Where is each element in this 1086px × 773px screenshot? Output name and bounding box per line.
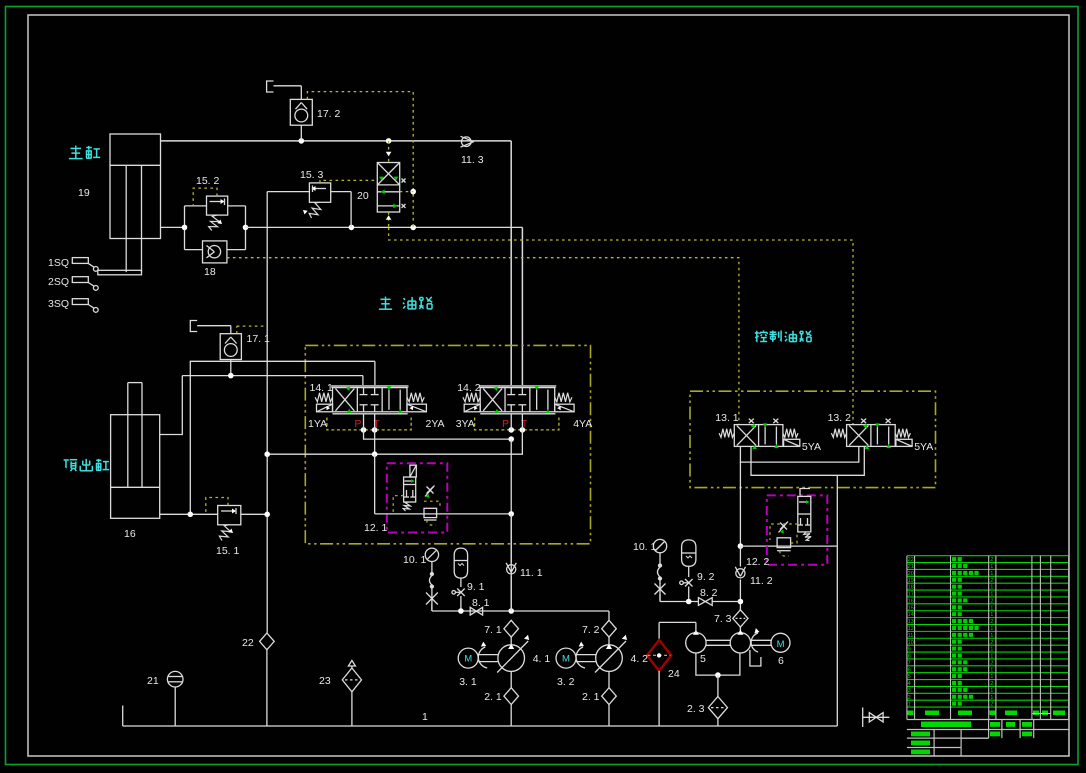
gauge 10.1 right [653, 539, 666, 552]
svg-text:2: 2 [990, 702, 993, 708]
wire cyl16 bottom [160, 513, 218, 515]
svg-text:M: M [562, 654, 570, 665]
svg-text:17. 1: 17. 1 [247, 333, 271, 345]
svg-text:12. 1: 12. 1 [364, 522, 388, 534]
wire tank line 1 [123, 725, 838, 727]
valve 8.2 [698, 598, 712, 606]
check valve 17.2 [274, 86, 313, 125]
wire 15.2 loop top [185, 205, 207, 207]
svg-text:14: 14 [908, 612, 914, 618]
table row texts [908, 557, 994, 708]
check valve 11.1 [506, 563, 516, 574]
svg-text:19: 19 [78, 187, 90, 199]
title block [907, 720, 1069, 756]
svg-text:2: 2 [908, 695, 911, 701]
wire P riser to valves [510, 141, 512, 388]
node 15.3 right [349, 225, 355, 231]
node 12.1/P [508, 511, 514, 517]
filter 7.3 [733, 610, 748, 627]
gauge 21 level [167, 671, 183, 726]
wire loop-T riser [521, 227, 523, 387]
svg-text:5: 5 [908, 674, 911, 680]
filter 2.3 [708, 675, 727, 726]
cylinder 16 eject body [111, 383, 160, 519]
svg-text:1: 1 [990, 654, 993, 660]
check valve 11.3 [461, 136, 474, 147]
motor 3. 1 [458, 642, 498, 669]
pilot line 17.2 dotted [307, 92, 413, 228]
wire T-return riser [266, 192, 268, 633]
svg-text:11. 2: 11. 2 [750, 575, 773, 587]
svg-text:2: 2 [990, 598, 993, 604]
svg-text:3SQ: 3SQ [48, 298, 69, 310]
breather 23 [342, 661, 361, 727]
node P drop [508, 436, 514, 442]
wire P cross-line [364, 430, 512, 439]
pilot drop into 20 [388, 141, 390, 163]
drain valve bottom right [863, 708, 890, 728]
svg-text:22: 22 [908, 557, 914, 563]
svg-text:2: 2 [990, 557, 993, 563]
svg-text:9: 9 [908, 647, 911, 653]
relief valve 15.3 [303, 183, 331, 218]
node P junction [508, 608, 514, 614]
solenoid frame 14. 2 dashed [475, 418, 559, 430]
region box main circuit [305, 345, 590, 543]
svg-text:10: 10 [908, 640, 914, 646]
svg-text:1: 1 [990, 695, 993, 701]
svg-text:1: 1 [990, 688, 993, 694]
needle valve 12.2 [779, 522, 789, 534]
svg-text:8. 2: 8. 2 [700, 587, 718, 599]
wire rod-side of 19 [161, 226, 185, 228]
check valve 18 [203, 241, 227, 263]
svg-text:P: P [502, 418, 509, 430]
wire 15.3 left [267, 191, 309, 193]
svg-text:4. 2: 4. 2 [631, 653, 649, 665]
wire junction to 7.2 [608, 611, 610, 620]
limit switch 3SQ [72, 299, 98, 313]
pilot line 2 to 13.1 [227, 258, 739, 425]
svg-text:11: 11 [908, 633, 914, 639]
wire 15.2 loop bottom [185, 249, 203, 251]
svg-text:11. 1: 11. 1 [520, 567, 543, 579]
wire A-line [190, 361, 375, 514]
check valve 17.1 [197, 326, 241, 360]
svg-text:1: 1 [908, 702, 911, 708]
label 主油路 [379, 297, 432, 310]
node 8.2 line [738, 599, 744, 605]
needle valve 12.1 [425, 486, 435, 499]
valve 14. 1 body [315, 386, 426, 414]
svg-text:13: 13 [908, 619, 914, 625]
svg-text:1: 1 [990, 647, 993, 653]
wire T drop to 12.1 [374, 454, 376, 514]
svg-text:17: 17 [908, 592, 914, 598]
wire 15.3 right drop [350, 192, 352, 228]
svg-text:1: 1 [990, 674, 993, 680]
pump 5 double [659, 622, 751, 653]
svg-text:18: 18 [204, 266, 216, 278]
node 9.2 [686, 599, 692, 605]
svg-text:1: 1 [990, 633, 993, 639]
wire main top line P [161, 140, 512, 142]
label 主缸 [69, 146, 100, 159]
svg-text:11. 3: 11. 3 [461, 154, 484, 166]
svg-text:1YA: 1YA [308, 418, 327, 430]
region box 12.2 magenta [767, 495, 828, 564]
wire 17.1 down [230, 360, 232, 376]
svg-text:8: 8 [908, 654, 911, 660]
svg-text:24: 24 [668, 668, 680, 680]
valve 13. 2 body [831, 419, 912, 450]
pilot out of 20 [388, 212, 390, 227]
wire pump5 under [696, 653, 740, 675]
filter 22 [260, 633, 275, 726]
node A/cyl16 [188, 512, 194, 518]
svg-text:15: 15 [908, 605, 914, 611]
svg-text:P: P [354, 418, 361, 430]
svg-text:2: 2 [990, 640, 993, 646]
wire 15.1 to T-return [241, 513, 267, 515]
drain bracket pump5 [750, 650, 761, 666]
motor 6 [751, 628, 790, 652]
node 14. 2 T [520, 427, 526, 433]
wire A drop to 14.1 [374, 361, 376, 387]
wire junction line [431, 605, 433, 612]
pilot 15.3 to 20 dotted [320, 180, 377, 183]
valve 8.1 [470, 607, 482, 615]
limit switch 1SQ [72, 258, 98, 272]
svg-text:16: 16 [124, 528, 136, 540]
filter 7. 1 [504, 620, 519, 637]
svg-text:18: 18 [908, 585, 914, 591]
pump 4. 2 [595, 635, 627, 673]
filter 2. 1 [602, 671, 617, 726]
svg-text:23: 23 [319, 675, 331, 687]
wire mid rail right [246, 226, 523, 228]
node main/17.2 [299, 138, 305, 144]
svg-text:2. 1: 2. 1 [484, 691, 502, 703]
svg-text:15. 2: 15. 2 [196, 175, 220, 187]
svg-text:8. 1: 8. 1 [472, 597, 490, 609]
node 14. 2 P [508, 427, 514, 433]
svg-text:1: 1 [422, 711, 428, 723]
filter 24 red [647, 622, 671, 726]
needle valve right [655, 583, 666, 602]
svg-text:7. 1: 7. 1 [484, 624, 502, 636]
node loop left [182, 225, 188, 231]
svg-text:13. 1: 13. 1 [715, 412, 739, 424]
svg-text:3YA: 3YA [456, 418, 475, 430]
relief valve 15.1 [218, 506, 241, 541]
svg-text:2: 2 [990, 660, 993, 666]
svg-text:10. 1: 10. 1 [403, 554, 427, 566]
table header row [907, 711, 1069, 720]
svg-text:14. 1: 14. 1 [310, 382, 334, 394]
pilot 20 right port [400, 191, 414, 193]
wire drain to tank [836, 475, 838, 726]
valve 14. 2 body [463, 386, 574, 414]
svg-text:3: 3 [908, 688, 911, 694]
node T-line 14.1 [372, 451, 378, 457]
wire 17.2 to main [300, 125, 302, 141]
wire B drop to 14.1 [362, 376, 364, 388]
tank symbol 17.1 drain [190, 321, 197, 332]
gauge 10.1 left [425, 548, 438, 561]
svg-text:6: 6 [778, 655, 784, 667]
svg-text:20: 20 [357, 190, 369, 202]
wire 13.1 P down [739, 462, 741, 546]
svg-text:M: M [777, 639, 785, 650]
reducing valve 12.1 [403, 465, 416, 511]
wire B-line [182, 375, 363, 377]
accumulator 9.2 [682, 540, 696, 566]
tank symbol 17.2 drain [267, 81, 274, 92]
wire P main riser low [510, 439, 512, 611]
pilot 17.1 dotted [236, 326, 238, 334]
svg-text:1: 1 [990, 571, 993, 577]
svg-text:2YA: 2YA [425, 418, 444, 430]
svg-text:5YA: 5YA [914, 441, 933, 453]
wire T line to tank [374, 430, 376, 454]
svg-text:17. 2: 17. 2 [317, 108, 341, 120]
svg-text:3. 2: 3. 2 [557, 676, 575, 688]
pump 4. 1 [497, 635, 529, 673]
valve 20 [377, 163, 405, 213]
pilot relief 12.1 [424, 508, 437, 520]
wire B to cyl16 [160, 376, 183, 435]
motor 3. 2 [556, 642, 596, 669]
svg-text:12: 12 [908, 626, 914, 632]
svg-text:1SQ: 1SQ [48, 257, 69, 269]
shutoff 9.1 [452, 578, 465, 611]
svg-text:22: 22 [242, 637, 254, 649]
svg-text:20: 20 [908, 571, 914, 577]
svg-text:2. 1: 2. 1 [582, 691, 600, 703]
svg-text:2SQ: 2SQ [48, 276, 69, 288]
wire 12.1 line [375, 513, 511, 515]
node 15.1/T [264, 512, 270, 518]
filter 7. 2 [602, 620, 617, 637]
node T-line left [264, 451, 270, 457]
svg-text:14. 2: 14. 2 [457, 382, 481, 394]
pilot line 1 to 13.2 [389, 227, 853, 424]
svg-text:3. 1: 3. 1 [459, 676, 477, 688]
relief valve 15.2 [207, 196, 228, 230]
svg-text:1: 1 [990, 564, 993, 570]
svg-text:5YA: 5YA [802, 441, 821, 453]
svg-text:2: 2 [990, 578, 993, 584]
wire P through 11.1 [510, 514, 512, 563]
node 14. 1 P [361, 427, 367, 433]
svg-text:10. 1: 10. 1 [633, 541, 657, 553]
svg-text:4. 1: 4. 1 [533, 653, 551, 665]
wire 15.2 loop right [245, 206, 247, 250]
svg-text:7. 3: 7. 3 [714, 613, 732, 625]
svg-text:1: 1 [990, 626, 993, 632]
wire 15.3 right [331, 191, 351, 193]
check valve 11.2 [735, 567, 745, 578]
pilot dotted 12.2 [770, 524, 798, 540]
svg-text:1: 1 [990, 612, 993, 618]
svg-text:13. 2: 13. 2 [828, 412, 852, 424]
svg-text:2. 3: 2. 3 [687, 703, 705, 715]
region box 12.1 magenta [387, 463, 448, 532]
reducing valve 12.2 [798, 489, 811, 541]
svg-text:15. 3: 15. 3 [300, 169, 324, 181]
pilot line 15.2 dotted [193, 188, 217, 206]
pilot relief 12.2 [777, 538, 791, 551]
svg-text:16: 16 [908, 598, 914, 604]
solenoid frame 14. 1 dashed [327, 418, 411, 430]
pilot dotted 12.1 [393, 496, 403, 514]
svg-text:9. 2: 9. 2 [697, 571, 715, 583]
limit switch 2SQ [72, 277, 98, 291]
filter 2. 1 [504, 671, 519, 726]
svg-text:M: M [464, 654, 472, 665]
svg-text:15. 1: 15. 1 [216, 545, 240, 557]
wire to 8.2 [659, 595, 661, 602]
svg-text:6: 6 [908, 667, 911, 673]
node pilot 20 right [410, 189, 416, 195]
wire control supply [739, 546, 741, 566]
svg-text:19: 19 [908, 578, 914, 584]
svg-text:4: 4 [908, 681, 911, 687]
svg-text:1: 1 [990, 585, 993, 591]
svg-text:21: 21 [908, 564, 914, 570]
svg-text:1: 1 [990, 667, 993, 673]
svg-text:4YA: 4YA [573, 418, 592, 430]
cylinder 19 main body [98, 134, 161, 275]
node 14. 1 T [372, 427, 378, 433]
label 控制油路 [755, 331, 812, 342]
wire 13 line A [740, 446, 858, 462]
svg-text:1: 1 [990, 592, 993, 598]
shutoff 9.2 [680, 566, 693, 601]
node pilot20 [410, 225, 416, 231]
svg-text:12. 2: 12. 2 [746, 556, 770, 568]
node 17.1/B [228, 373, 234, 379]
node main/20 [386, 138, 392, 144]
valve 13. 1 body [719, 419, 800, 450]
wire 13 line B [751, 446, 864, 475]
pilot 15.1 dotted [206, 498, 228, 515]
label 顶出缸 [64, 459, 110, 471]
wire 15.2 loop left [184, 206, 186, 250]
svg-text:9. 1: 9. 1 [467, 581, 485, 593]
wire gauge drop left [429, 562, 433, 593]
svg-text:21: 21 [147, 675, 159, 687]
svg-text:2: 2 [990, 619, 993, 625]
node 2.3 [715, 672, 721, 678]
accumulator 9.1 [454, 548, 467, 578]
node 9.1 [458, 608, 464, 614]
region box control circuit [690, 391, 936, 487]
node loop right [243, 225, 249, 231]
svg-text:5: 5 [700, 653, 706, 665]
table parts list [907, 556, 1069, 720]
svg-text:7. 2: 7. 2 [582, 624, 600, 636]
node 12.2 junction [738, 543, 744, 549]
svg-text:1: 1 [990, 605, 993, 611]
svg-text:2: 2 [990, 681, 993, 687]
needle valve left [426, 592, 438, 611]
wire 12.2 line [740, 545, 837, 547]
wire gauge drop [658, 553, 662, 584]
svg-text:7: 7 [908, 660, 911, 666]
